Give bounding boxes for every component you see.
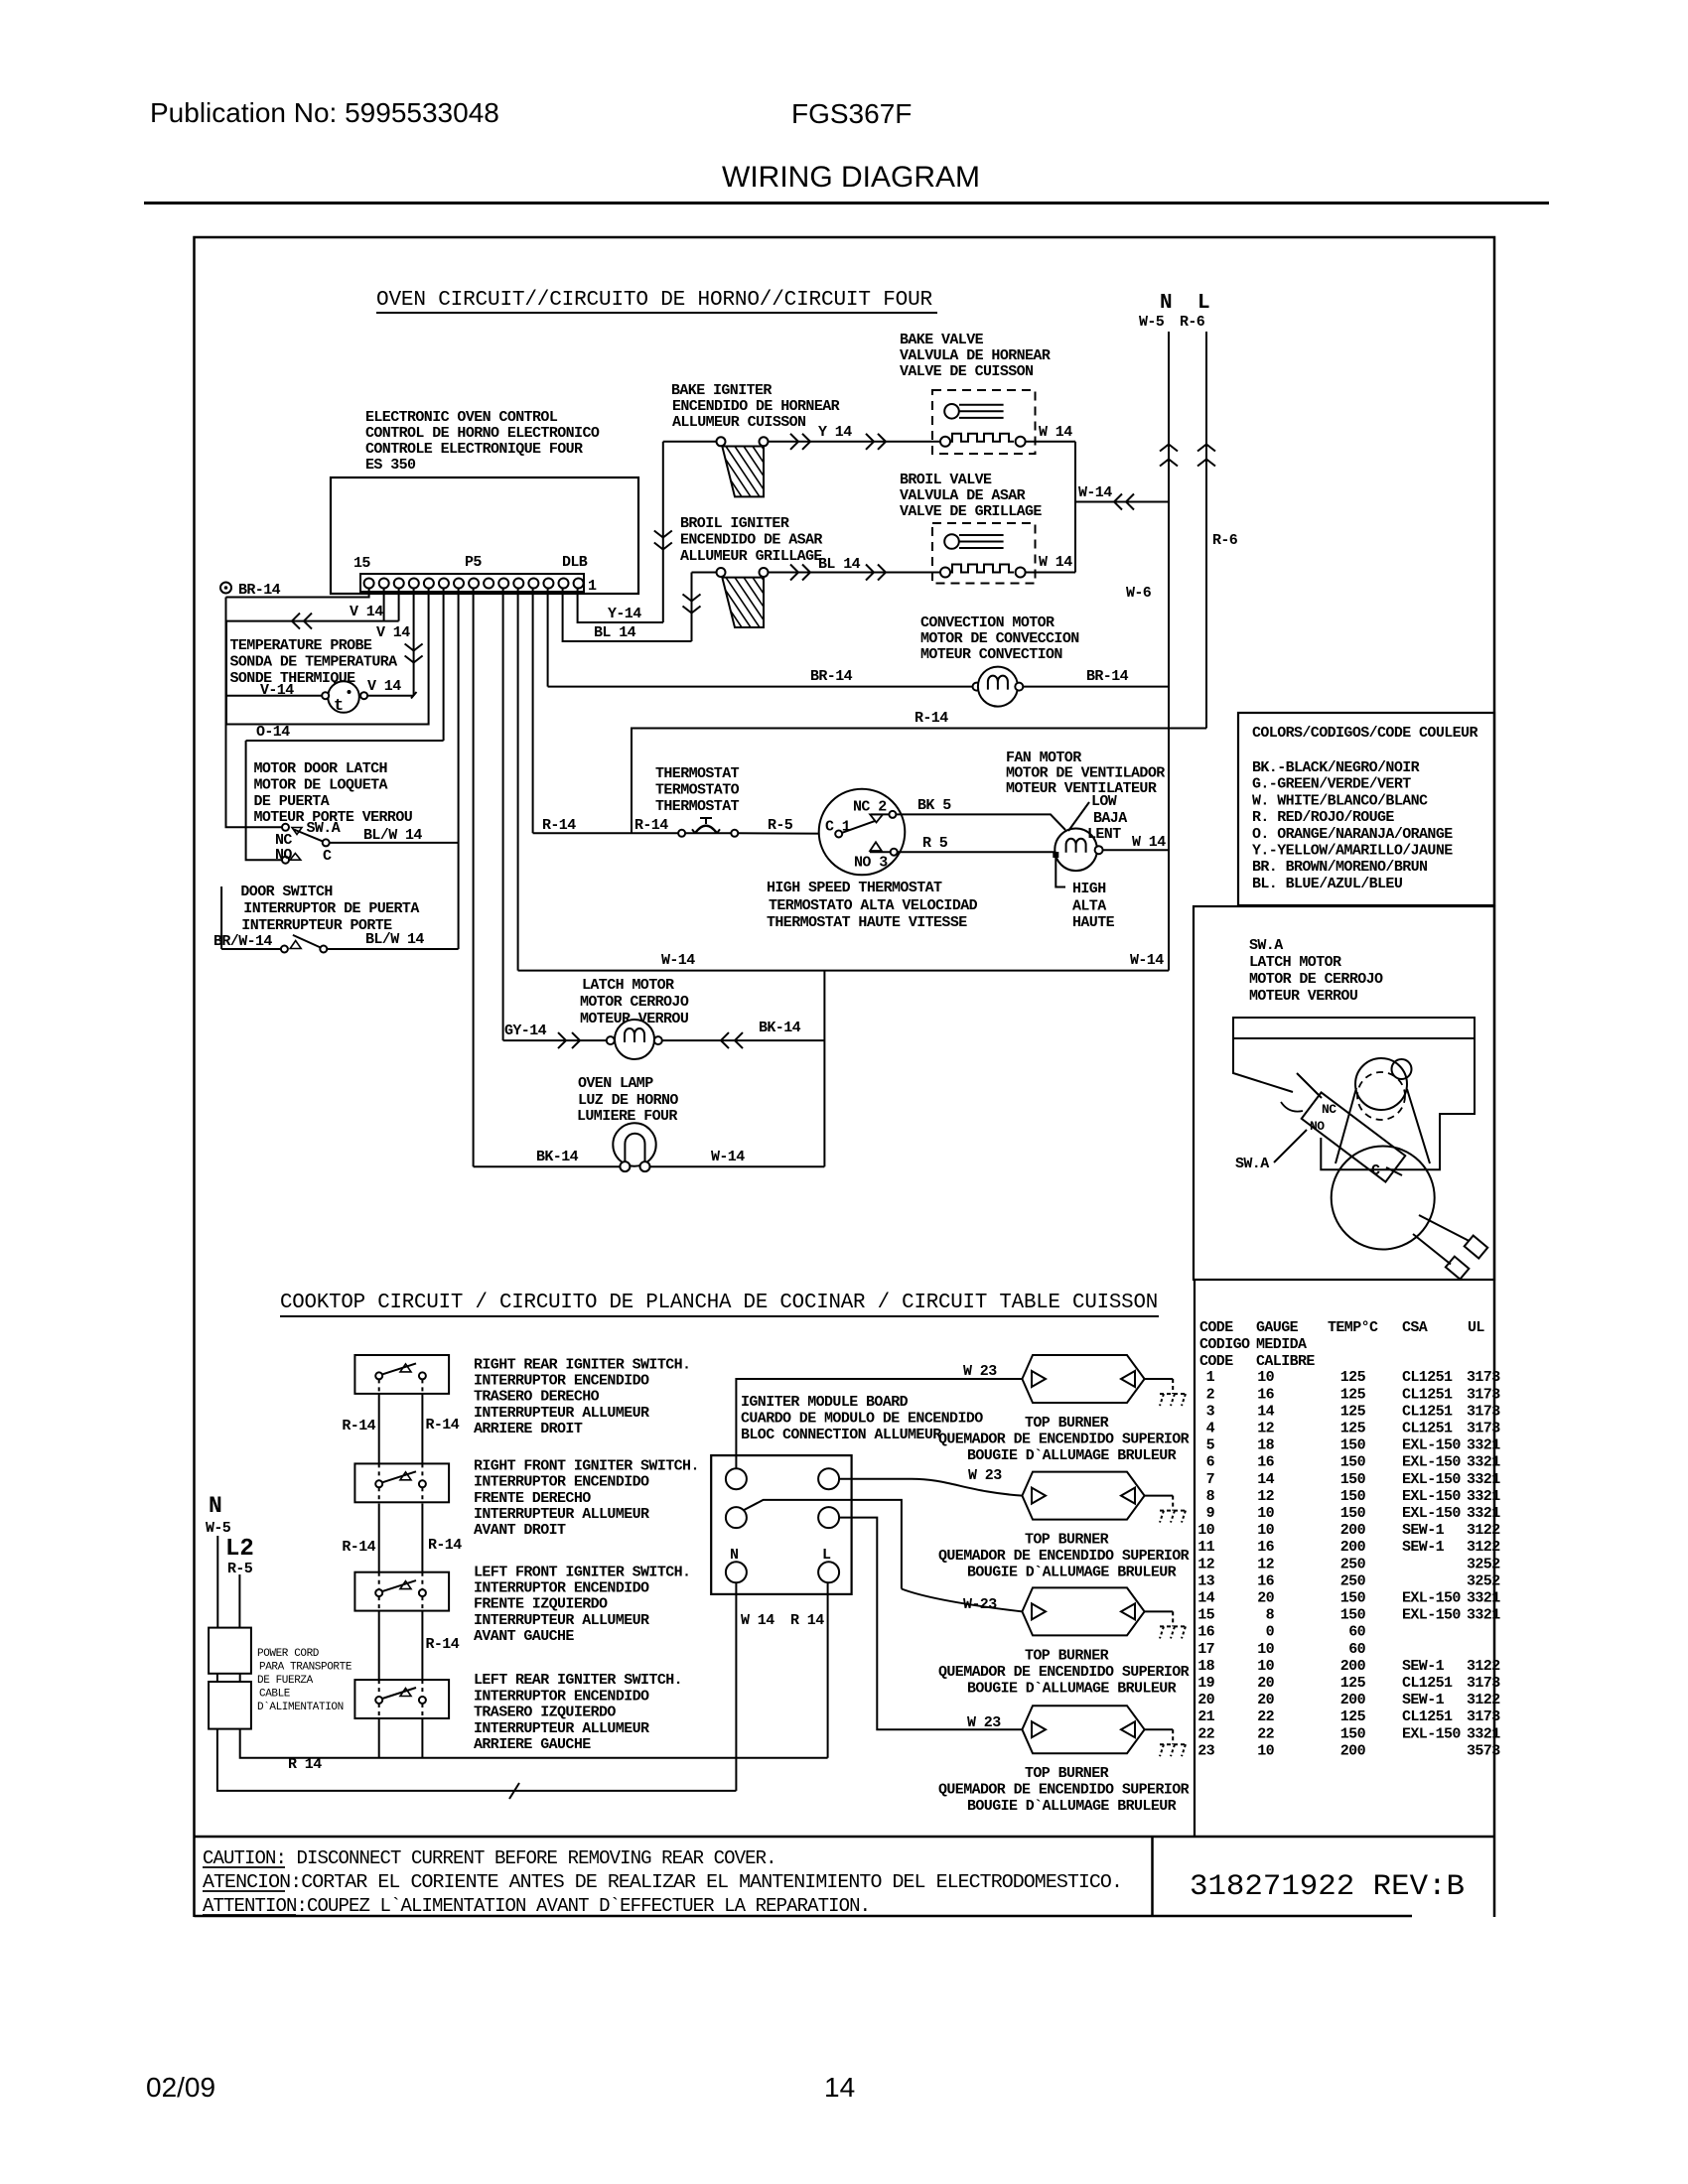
svg-text:3122: 3122	[1467, 1522, 1500, 1539]
wire BR-14 down to door latch switch	[226, 598, 283, 828]
svg-text:BR-14: BR-14	[810, 668, 853, 685]
svg-text:3173: 3173	[1467, 1421, 1500, 1437]
svg-text:W-14: W-14	[661, 952, 695, 969]
diagram outer border	[195, 237, 1495, 1917]
wire pin10 O-14 to door latch NO	[443, 589, 445, 742]
svg-text:150: 150	[1340, 1488, 1366, 1505]
wire gauge table panel	[1194, 1280, 1196, 1837]
svg-text:W-5: W-5	[206, 1520, 231, 1537]
dashed wires inside switch boxes	[378, 1379, 380, 1394]
svg-text:BR-14: BR-14	[238, 582, 281, 599]
svg-text:LUZ DE HORNO: LUZ DE HORNO	[578, 1092, 678, 1109]
svg-text:14: 14	[1257, 1471, 1274, 1488]
svg-text:OVEN LAMP: OVEN LAMP	[578, 1075, 653, 1092]
wire convection motor to N line	[1023, 686, 1169, 688]
svg-text:CABLE: CABLE	[259, 1689, 291, 1701]
svg-text:LEFT REAR IGNITER SWITCH.: LEFT REAR IGNITER SWITCH.	[474, 1672, 682, 1689]
svg-text:DLB: DLB	[562, 554, 588, 571]
wire broil igniter to broil valve BL 14	[769, 572, 946, 574]
svg-text:W-5: W-5	[1139, 314, 1165, 331]
svg-text:3321: 3321	[1467, 1454, 1500, 1471]
oven lamp	[613, 1123, 655, 1165]
header rule	[144, 202, 1549, 205]
svg-text:R-14: R-14	[342, 1539, 375, 1556]
svg-text:CSA: CSA	[1402, 1319, 1428, 1336]
svg-text:ALLUMEUR CUISSON: ALLUMEUR CUISSON	[672, 414, 806, 431]
svg-text:TEMP°C: TEMP°C	[1328, 1319, 1378, 1336]
svg-text:10: 10	[1257, 1658, 1274, 1675]
svg-text:200: 200	[1340, 1742, 1366, 1759]
svg-text:8: 8	[1206, 1488, 1215, 1505]
top burner 3	[1022, 1587, 1144, 1635]
latch mechanism bracket top	[1233, 1018, 1475, 1038]
broil valve coil	[940, 568, 950, 578]
svg-text:3173: 3173	[1467, 1369, 1500, 1386]
svg-text:200: 200	[1340, 1692, 1366, 1708]
svg-text:19: 19	[1197, 1675, 1214, 1692]
wire pin7 column to W-14 loop	[517, 589, 519, 971]
wire L supply line R-6	[1205, 332, 1207, 729]
svg-text:C: C	[323, 848, 332, 865]
svg-text:R. RED/ROJO/ROUGE: R. RED/ROJO/ROUGE	[1252, 809, 1394, 826]
svg-text:CAUTION: DISCONNECT CURRENT B: CAUTION: DISCONNECT CURRENT BEFORE REMOV…	[203, 1847, 776, 1869]
igniter switch right rear box	[354, 1355, 449, 1394]
svg-text:LEFT FRONT IGNITER SWITCH.: LEFT FRONT IGNITER SWITCH.	[474, 1564, 690, 1580]
svg-text:BLOC CONNECTION ALLUMEUR: BLOC CONNECTION ALLUMEUR	[741, 1427, 941, 1443]
svg-text:O. ORANGE/NARANJA/ORANGE: O. ORANGE/NARANJA/ORANGE	[1252, 826, 1453, 843]
svg-text:EXL-150: EXL-150	[1402, 1454, 1461, 1471]
bake igniter hatch	[708, 447, 804, 497]
svg-text:3321: 3321	[1467, 1725, 1500, 1742]
svg-text:BROIL VALVE: BROIL VALVE	[900, 472, 992, 488]
svg-text:125: 125	[1340, 1708, 1366, 1725]
svg-text:15: 15	[1197, 1607, 1214, 1624]
latch motor	[607, 1036, 615, 1044]
svg-text:CONVECTION MOTOR: CONVECTION MOTOR	[920, 614, 1055, 631]
svg-text:CL1251: CL1251	[1402, 1675, 1453, 1692]
svg-text:ES 350: ES 350	[365, 457, 416, 474]
connector chevrons V 14	[292, 614, 300, 629]
svg-text:W 14: W 14	[1132, 834, 1166, 851]
svg-text:250: 250	[1340, 1572, 1366, 1589]
svg-text:WIRING DIAGRAM: WIRING DIAGRAM	[722, 161, 980, 194]
svg-text:INTERRUPTEUR ALLUMEUR: INTERRUPTEUR ALLUMEUR	[474, 1720, 649, 1737]
igniter switch left rear box	[354, 1680, 449, 1718]
svg-text:R-14: R-14	[914, 710, 948, 727]
svg-text:3: 3	[1206, 1403, 1215, 1420]
svg-text:O-14: O-14	[256, 724, 290, 741]
svg-text:HIGH SPEED THERMOSTAT: HIGH SPEED THERMOSTAT	[767, 880, 942, 896]
svg-text:ELECTRONIC OVEN CONTROL: ELECTRONIC OVEN CONTROL	[365, 409, 558, 426]
svg-text:BAKE VALVE: BAKE VALVE	[900, 332, 984, 348]
svg-text:N: N	[730, 1547, 739, 1564]
svg-text:20: 20	[1197, 1692, 1214, 1708]
wire R-5 to high speed thermostat	[738, 832, 835, 835]
top burner 1	[1022, 1355, 1144, 1403]
svg-text:Publication No: 5995533048: Publication No: 5995533048	[150, 97, 499, 128]
svg-text:TOP BURNER: TOP BURNER	[1025, 1647, 1109, 1664]
svg-text:ALTA: ALTA	[1072, 898, 1106, 915]
svg-text:CONTROL DE HORNO ELECTRONICO: CONTROL DE HORNO ELECTRONICO	[365, 425, 600, 442]
svg-text:R-6: R-6	[1180, 314, 1205, 331]
svg-text:200: 200	[1340, 1522, 1366, 1539]
caution box top line	[195, 1836, 1495, 1839]
wire bake igniter to bake valve Y 14	[769, 441, 946, 443]
svg-text:TEMPERATURE PROBE: TEMPERATURE PROBE	[230, 637, 372, 654]
svg-text:16: 16	[1257, 1539, 1274, 1556]
svg-text:W 23: W 23	[963, 1363, 997, 1380]
svg-text:3122: 3122	[1467, 1539, 1500, 1556]
svg-text:R-14: R-14	[542, 817, 576, 834]
svg-text:CL1251: CL1251	[1402, 1403, 1453, 1420]
svg-text:SW.A: SW.A	[307, 820, 341, 837]
svg-text:TRASERO DERECHO: TRASERO DERECHO	[474, 1389, 600, 1406]
svg-text:THERMOSTAT: THERMOSTAT	[655, 765, 740, 782]
svg-text:C 1: C 1	[825, 819, 851, 836]
svg-text:W-14: W-14	[711, 1149, 745, 1165]
svg-text:L: L	[1197, 292, 1210, 315]
wire top burner 1 to spark electrode	[1145, 1378, 1174, 1380]
bake valve pilot	[944, 404, 959, 419]
svg-text:60: 60	[1348, 1624, 1365, 1641]
svg-text:CL1251: CL1251	[1402, 1386, 1453, 1403]
svg-text:INTERRUPTEUR ALLUMEUR: INTERRUPTEUR ALLUMEUR	[474, 1405, 649, 1422]
switch SW.A door latch	[282, 824, 289, 831]
svg-text:COOKTOP CIRCUIT / CIRCUITO DE: COOKTOP CIRCUIT / CIRCUITO DE PLANCHA DE…	[280, 1292, 1158, 1314]
svg-text:200: 200	[1340, 1539, 1366, 1556]
latch motor panel box	[1194, 906, 1494, 1280]
svg-text:HAUTE: HAUTE	[1072, 914, 1115, 931]
svg-text:QUEMADOR DE ENCENDIDO SUPERIOR: QUEMADOR DE ENCENDIDO SUPERIOR	[938, 1432, 1190, 1448]
svg-text:150: 150	[1340, 1471, 1366, 1488]
svg-text:NC: NC	[1322, 1102, 1336, 1117]
svg-text:EXL-150: EXL-150	[1402, 1607, 1461, 1624]
svg-text:Y.-YELLOW/AMARILLO/JAUNE: Y.-YELLOW/AMARILLO/JAUNE	[1252, 843, 1453, 860]
svg-text:8: 8	[1266, 1607, 1275, 1624]
svg-text:DE FUERZA: DE FUERZA	[257, 1675, 314, 1687]
svg-text:Y-14: Y-14	[608, 606, 641, 622]
svg-text:MOTOR CERROJO: MOTOR CERROJO	[580, 994, 689, 1011]
wire W-14 oven lamp return	[650, 1165, 825, 1167]
svg-text:GY-14: GY-14	[504, 1023, 547, 1039]
wire pin4 BL 14 to broil igniter	[563, 589, 692, 642]
colors legend box	[1238, 713, 1494, 905]
svg-text:R 5: R 5	[922, 835, 948, 852]
svg-text:SEW-1: SEW-1	[1402, 1692, 1445, 1708]
svg-text:INTERRUPTOR ENCENDIDO: INTERRUPTOR ENCENDIDO	[474, 1580, 649, 1597]
svg-text:10: 10	[1257, 1641, 1274, 1658]
broil igniter component	[717, 568, 726, 577]
wire BK-14 latch motor to W-14	[662, 1039, 825, 1041]
svg-text:MOTOR DE LOQUETA: MOTOR DE LOQUETA	[254, 777, 388, 794]
svg-text:10: 10	[1257, 1505, 1274, 1522]
svg-text:FRENTE IZQUIERDO: FRENTE IZQUIERDO	[474, 1596, 608, 1613]
wire board to top burner 2 W 23	[839, 1479, 1022, 1496]
svg-text:1: 1	[588, 578, 597, 595]
svg-text:22: 22	[1257, 1708, 1274, 1725]
svg-text:BR. BROWN/MORENO/BRUN: BR. BROWN/MORENO/BRUN	[1252, 859, 1428, 876]
svg-text:BOUGIE D`ALLUMAGE BRULEUR: BOUGIE D`ALLUMAGE BRULEUR	[967, 1798, 1177, 1815]
wire N supply line W-5/W-6	[1168, 332, 1170, 971]
wire W-5 to igniter board N	[217, 1729, 737, 1791]
igniter module board box	[711, 1455, 851, 1594]
wire board to top burner 1 W 23	[736, 1379, 1022, 1468]
svg-text:125: 125	[1340, 1386, 1366, 1403]
svg-text:NO: NO	[1310, 1119, 1325, 1134]
svg-text:10: 10	[1197, 1522, 1214, 1539]
svg-text:9: 9	[1206, 1505, 1215, 1522]
wire pin8 column to latch motor GY-14	[502, 589, 504, 1041]
svg-text:3122: 3122	[1467, 1692, 1500, 1708]
svg-text:W 14: W 14	[1039, 424, 1072, 441]
svg-text:SEW-1: SEW-1	[1402, 1522, 1445, 1539]
wire pins 14,13 to V-14 connector	[383, 589, 385, 621]
fan motor	[1055, 829, 1097, 872]
power cord box lower	[209, 1682, 251, 1729]
svg-text:12: 12	[1197, 1556, 1214, 1572]
svg-text:14: 14	[1197, 1590, 1214, 1607]
broil igniter hatch	[708, 578, 804, 627]
svg-text:3321: 3321	[1467, 1607, 1500, 1624]
svg-text:R-14: R-14	[428, 1537, 462, 1554]
svg-text:R-14: R-14	[342, 1418, 375, 1434]
svg-text:0: 0	[1266, 1624, 1275, 1641]
svg-text:16: 16	[1197, 1624, 1214, 1641]
svg-text:125: 125	[1340, 1403, 1366, 1420]
svg-text:150: 150	[1340, 1607, 1366, 1624]
wire board to top burner 4 W 23	[839, 1518, 1022, 1730]
svg-text:R-14: R-14	[426, 1417, 460, 1433]
connector chevrons on L line	[1197, 445, 1215, 452]
svg-text:MOTOR DE CONVECCION: MOTOR DE CONVECCION	[920, 630, 1079, 647]
svg-text:C: C	[1371, 1162, 1380, 1179]
svg-text:FRENTE DERECHO: FRENTE DERECHO	[474, 1490, 591, 1507]
svg-text:12: 12	[1257, 1488, 1274, 1505]
wires through power cord boxes	[216, 1674, 218, 1682]
svg-text:16: 16	[1257, 1572, 1274, 1589]
svg-text:THERMOSTAT: THERMOSTAT	[655, 798, 740, 815]
svg-text:3252: 3252	[1467, 1556, 1500, 1572]
svg-text:BL 14: BL 14	[594, 624, 636, 641]
svg-text:200: 200	[1340, 1658, 1366, 1675]
svg-text:EXL-150: EXL-150	[1402, 1488, 1461, 1505]
svg-text:EXL-150: EXL-150	[1402, 1471, 1461, 1488]
svg-text:V 14: V 14	[350, 604, 383, 620]
high speed thermostat	[819, 789, 906, 876]
thermostat temperature switch	[678, 830, 685, 837]
svg-text:POWER CORD: POWER CORD	[257, 1648, 320, 1660]
svg-text:BK-14: BK-14	[536, 1149, 579, 1165]
svg-text:TERMOSTATO: TERMOSTATO	[655, 782, 740, 799]
svg-text:HIGH: HIGH	[1072, 881, 1106, 897]
convection motor	[973, 683, 981, 691]
svg-text:ATTENTION:COUPEZ L`ALIMENTATIO: ATTENTION:COUPEZ L`ALIMENTATION AVANT D`…	[203, 1895, 870, 1917]
svg-text:VALVE DE CUISSON: VALVE DE CUISSON	[900, 363, 1034, 380]
svg-text:GAUGE: GAUGE	[1256, 1319, 1299, 1336]
svg-text:10: 10	[1257, 1742, 1274, 1759]
svg-text:60: 60	[1348, 1641, 1365, 1658]
svg-text:20: 20	[1257, 1590, 1274, 1607]
svg-text:MOTEUR VERROU: MOTEUR VERROU	[1249, 988, 1358, 1005]
svg-text:W-6: W-6	[1126, 585, 1152, 602]
svg-text:BL/W 14: BL/W 14	[363, 827, 422, 844]
svg-text:L2: L2	[225, 1536, 254, 1563]
svg-text:LENT: LENT	[1087, 826, 1121, 843]
wire W-14 bottom loop	[518, 970, 1169, 972]
svg-text:W 14: W 14	[741, 1612, 774, 1629]
svg-text:3321: 3321	[1467, 1590, 1500, 1607]
svg-text:MOTEUR VENTILATEUR: MOTEUR VENTILATEUR	[1006, 780, 1157, 797]
svg-text:125: 125	[1340, 1369, 1366, 1386]
svg-text:150: 150	[1340, 1725, 1366, 1742]
svg-text:SEW-1: SEW-1	[1402, 1539, 1445, 1556]
svg-text:3252: 3252	[1467, 1572, 1500, 1589]
svg-text:N: N	[209, 1493, 222, 1519]
svg-text:LATCH MOTOR: LATCH MOTOR	[1249, 954, 1341, 971]
wire R-14 L feed to thermostat	[632, 729, 1206, 834]
svg-text:18: 18	[1197, 1658, 1214, 1675]
svg-text:EXL-150: EXL-150	[1402, 1505, 1461, 1522]
latch cam top loop	[1392, 1059, 1412, 1079]
wire board to top burner 3 W-23	[744, 1500, 902, 1589]
svg-text:SEW-1: SEW-1	[1402, 1658, 1445, 1675]
svg-text:3573: 3573	[1467, 1742, 1500, 1759]
wire pin15 to BR-14 node	[226, 589, 369, 598]
svg-text:3321: 3321	[1467, 1437, 1500, 1454]
svg-text:150: 150	[1340, 1590, 1366, 1607]
svg-text:10: 10	[1257, 1369, 1274, 1386]
svg-text:QUEMADOR DE ENCENDIDO SUPERIOR: QUEMADOR DE ENCENDIDO SUPERIOR	[938, 1664, 1190, 1681]
svg-text:14: 14	[1257, 1403, 1274, 1420]
svg-text:PARA TRANSPORTE: PARA TRANSPORTE	[259, 1662, 352, 1674]
svg-text:NO 3: NO 3	[854, 855, 888, 872]
caution divider	[1151, 1837, 1154, 1917]
svg-text:250: 250	[1340, 1556, 1366, 1572]
svg-text:ATENCION:CORTAR EL CORIENTE AN: ATENCION:CORTAR EL CORIENTE ANTES DE REA…	[203, 1871, 1122, 1893]
svg-text:LUMIERE FOUR: LUMIERE FOUR	[577, 1108, 677, 1125]
svg-text:TERMOSTATO ALTA VELOCIDAD: TERMOSTATO ALTA VELOCIDAD	[769, 897, 978, 914]
svg-text:CONTROLE ELECTRONIQUE FOUR: CONTROLE ELECTRONIQUE FOUR	[365, 441, 583, 458]
electronic oven control EOC box	[331, 478, 638, 594]
svg-text:BOUGIE D`ALLUMAGE BRULEUR: BOUGIE D`ALLUMAGE BRULEUR	[967, 1447, 1177, 1464]
svg-text:16: 16	[1257, 1454, 1274, 1471]
svg-text:INTERRUPTOR ENCENDIDO: INTERRUPTOR ENCENDIDO	[474, 1474, 649, 1491]
wire L2 R-5 down	[238, 1574, 240, 1628]
svg-text:W-14: W-14	[1130, 952, 1164, 969]
broil valve dashed box	[932, 523, 1036, 584]
svg-text:TRASERO IZQUIERDO: TRASERO IZQUIERDO	[474, 1705, 616, 1721]
svg-text:MOTEUR CONVECTION: MOTEUR CONVECTION	[920, 646, 1062, 663]
svg-text:ALLUMEUR GRILLAGE: ALLUMEUR GRILLAGE	[680, 548, 822, 565]
svg-text:t: t	[334, 697, 344, 716]
svg-text:MOTOR DOOR LATCH: MOTOR DOOR LATCH	[254, 760, 387, 777]
svg-text:ARRIERE DROIT: ARRIERE DROIT	[474, 1421, 583, 1437]
svg-text:INTERRUPTOR ENCENDIDO: INTERRUPTOR ENCENDIDO	[474, 1373, 649, 1390]
wire fan motor to N line W 14	[1103, 849, 1169, 851]
svg-text:7: 7	[1206, 1471, 1214, 1488]
svg-text:BL 14: BL 14	[818, 556, 861, 573]
svg-text:COLORS/CODIGOS/CODE COULEUR: COLORS/CODIGOS/CODE COULEUR	[1252, 725, 1477, 742]
svg-text:R-14: R-14	[634, 817, 668, 834]
wire top burner 3 to spark electrode	[1145, 1610, 1174, 1612]
svg-text:12: 12	[1257, 1556, 1274, 1572]
latch cam dashed circle	[1357, 1072, 1405, 1120]
svg-text:150: 150	[1340, 1505, 1366, 1522]
connector chevrons on N line	[1160, 445, 1178, 452]
svg-text:N: N	[1160, 292, 1173, 315]
svg-text:5: 5	[1206, 1437, 1215, 1454]
svg-text:R-6: R-6	[1212, 532, 1238, 549]
svg-text:SONDA DE TEMPERATURA: SONDA DE TEMPERATURA	[230, 654, 398, 671]
svg-text:BK 5: BK 5	[917, 797, 951, 814]
svg-text:VALVE DE GRILLAGE: VALVE DE GRILLAGE	[900, 503, 1042, 520]
temperature probe loop left/bottom	[226, 589, 429, 725]
svg-text:13: 13	[1197, 1572, 1214, 1589]
svg-text:TOP BURNER: TOP BURNER	[1025, 1765, 1109, 1782]
bake valve dashed box	[932, 390, 1036, 454]
svg-text:R-14: R-14	[426, 1636, 460, 1653]
svg-text:MEDIDA: MEDIDA	[1256, 1336, 1307, 1353]
wire bake igniter left to Y-14	[663, 441, 717, 443]
svg-text:3173: 3173	[1467, 1675, 1500, 1692]
svg-text:W 23: W 23	[967, 1714, 1001, 1731]
svg-text:21: 21	[1197, 1708, 1214, 1725]
svg-text:125: 125	[1340, 1675, 1366, 1692]
wire BK-14 to oven lamp	[474, 1165, 621, 1167]
svg-text:NO: NO	[275, 847, 292, 864]
EOC connector pins	[364, 579, 374, 589]
svg-text:3321: 3321	[1467, 1471, 1500, 1488]
wire BK 5 NC2 to fan motor	[896, 814, 1065, 830]
wire R 5 NO3 to fan motor	[898, 851, 1056, 853]
svg-text:EXL-150: EXL-150	[1402, 1590, 1461, 1607]
bake valve coil	[940, 437, 950, 447]
svg-text:TOP BURNER: TOP BURNER	[1025, 1415, 1109, 1432]
svg-text:MOTOR DE VENTILADOR: MOTOR DE VENTILADOR	[1006, 765, 1165, 782]
svg-text:CL1251: CL1251	[1402, 1421, 1453, 1437]
svg-text:R-5: R-5	[768, 817, 793, 834]
svg-text:17: 17	[1197, 1641, 1214, 1658]
wire top burner 4 to spark electrode	[1145, 1728, 1174, 1730]
svg-text:DE PUERTA: DE PUERTA	[254, 793, 330, 810]
igniter switch right front box	[354, 1463, 449, 1502]
svg-text:3122: 3122	[1467, 1658, 1500, 1675]
svg-text:W. WHITE/BLANCO/BLANC: W. WHITE/BLANCO/BLANC	[1252, 792, 1428, 809]
svg-text:W-14: W-14	[1078, 484, 1112, 501]
svg-text:ENCENDIDO DE ASAR: ENCENDIDO DE ASAR	[680, 532, 822, 549]
wire pin6 column to thermostat R-14	[532, 589, 534, 834]
svg-text:125: 125	[1340, 1421, 1366, 1437]
wire pin DLB Y-14 to bake igniter	[578, 589, 663, 623]
svg-text:3173: 3173	[1467, 1386, 1500, 1403]
svg-text:18: 18	[1257, 1437, 1274, 1454]
svg-text:W 23: W 23	[968, 1467, 1002, 1484]
svg-text:QUEMADOR DE ENCENDIDO SUPERIOR: QUEMADOR DE ENCENDIDO SUPERIOR	[938, 1548, 1190, 1565]
svg-text:EXL-150: EXL-150	[1402, 1437, 1461, 1454]
wire broil igniter left to BL-14	[692, 572, 717, 574]
wire pin12 V-14 stub with connector	[413, 589, 415, 696]
svg-text:BOUGIE D`ALLUMAGE BRULEUR: BOUGIE D`ALLUMAGE BRULEUR	[967, 1680, 1177, 1697]
svg-text:CL1251: CL1251	[1402, 1369, 1453, 1386]
svg-text:CODIGO: CODIGO	[1199, 1336, 1250, 1353]
svg-text:SW.A: SW.A	[1235, 1156, 1269, 1172]
wire pin5 column to convection motor BR-14	[547, 589, 549, 687]
svg-text:BAJA: BAJA	[1093, 810, 1127, 827]
wire pin9 column to oven lamp	[473, 589, 475, 1167]
svg-text:DOOR SWITCH: DOOR SWITCH	[240, 884, 332, 900]
svg-text:14: 14	[824, 2072, 855, 2103]
svg-text:10: 10	[1257, 1522, 1274, 1539]
